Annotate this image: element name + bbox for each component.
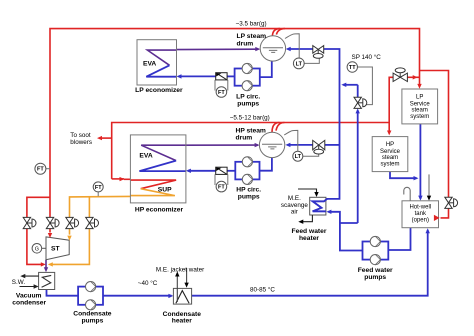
svg-text:HP: HP	[386, 142, 394, 148]
svg-text:(open): (open)	[412, 217, 429, 223]
svg-text:FT: FT	[37, 167, 44, 173]
svg-text:FT: FT	[95, 185, 102, 191]
svg-text:80-85 °C: 80-85 °C	[250, 285, 275, 293]
svg-text:~5.5-12 bar(g): ~5.5-12 bar(g)	[230, 115, 270, 122]
svg-text:heater: heater	[172, 318, 192, 325]
svg-text:G: G	[35, 246, 39, 252]
svg-text:blowers: blowers	[70, 139, 92, 146]
svg-text:HP circ.: HP circ.	[236, 186, 261, 193]
svg-text:LT: LT	[296, 61, 303, 67]
svg-text:Service: Service	[380, 149, 401, 155]
svg-text:To soot: To soot	[70, 132, 91, 139]
svg-text:tank: tank	[415, 211, 427, 217]
svg-text:pumps: pumps	[81, 317, 103, 324]
svg-text:Service: Service	[410, 101, 431, 107]
svg-text:system: system	[410, 114, 429, 120]
svg-text:TT: TT	[349, 65, 356, 71]
svg-text:M.E. jacket water: M.E. jacket water	[156, 266, 204, 273]
svg-text:LP steam: LP steam	[237, 33, 267, 40]
svg-text:pumps: pumps	[364, 274, 386, 281]
svg-text:FT: FT	[218, 185, 225, 191]
svg-text:SP 140 °C: SP 140 °C	[352, 53, 382, 61]
svg-text:steam: steam	[382, 155, 398, 161]
svg-text:pumps: pumps	[237, 100, 259, 107]
svg-text:SUP: SUP	[158, 187, 172, 194]
svg-text:FT: FT	[218, 90, 225, 96]
svg-text:EVA: EVA	[143, 61, 156, 68]
svg-text:ST: ST	[51, 246, 60, 253]
svg-text:Hot-well: Hot-well	[409, 204, 431, 210]
svg-text:HP economizer: HP economizer	[135, 207, 184, 214]
svg-text:S.W.: S.W.	[12, 279, 26, 286]
svg-text:drum: drum	[236, 134, 253, 141]
svg-text:LP economizer: LP economizer	[135, 87, 183, 94]
svg-text:air: air	[291, 208, 298, 215]
svg-text:~3.5 bar(g): ~3.5 bar(g)	[236, 20, 267, 27]
svg-text:Feed water: Feed water	[358, 267, 393, 274]
svg-text:Vacuum: Vacuum	[16, 292, 42, 299]
svg-text:LP: LP	[416, 95, 423, 101]
svg-text:pumps: pumps	[238, 193, 260, 200]
svg-text:drum: drum	[237, 41, 254, 48]
svg-text:heater: heater	[299, 235, 319, 242]
svg-text:~40 °C: ~40 °C	[138, 279, 158, 287]
svg-text:M.E.: M.E.	[288, 195, 301, 202]
svg-text:EVA: EVA	[139, 153, 152, 160]
svg-text:steam: steam	[412, 108, 428, 114]
svg-text:LT: LT	[295, 154, 302, 160]
svg-text:condenser: condenser	[12, 299, 46, 306]
svg-text:system: system	[380, 162, 399, 168]
